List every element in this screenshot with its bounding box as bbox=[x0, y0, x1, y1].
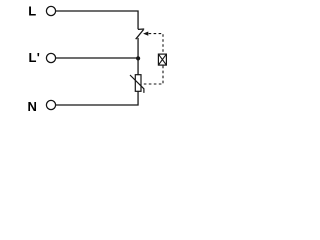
arrow head (thermal disconnect actuator) bbox=[143, 32, 148, 36]
varistor diagonal bbox=[130, 75, 144, 93]
dashed monitor line from box to varistor bbox=[142, 66, 163, 84]
varistor RV body bbox=[135, 75, 141, 92]
svg-text:': ' bbox=[37, 50, 40, 65]
terminal circle N bbox=[46, 100, 55, 109]
wire varistor to N bbox=[56, 91, 138, 105]
wire L' to junction bbox=[56, 57, 138, 59]
wire L horizontal and down to switch bbox=[56, 11, 138, 29]
wire switch to varistor (vertical) bbox=[137, 38, 139, 75]
switch blade bbox=[136, 30, 144, 40]
indicator box (remote signalling) bbox=[158, 54, 166, 65]
switch top contact tick bbox=[138, 28, 144, 30]
indicator box X bbox=[158, 54, 166, 65]
junction dot bbox=[136, 56, 140, 60]
dashed monitor line from arrow to indicator box bbox=[149, 34, 163, 54]
svg-text:N: N bbox=[28, 99, 37, 114]
terminal circle L bbox=[46, 6, 55, 15]
terminal circle L' bbox=[46, 53, 55, 62]
svg-text:L: L bbox=[29, 50, 37, 65]
svg-text:L: L bbox=[28, 4, 36, 19]
